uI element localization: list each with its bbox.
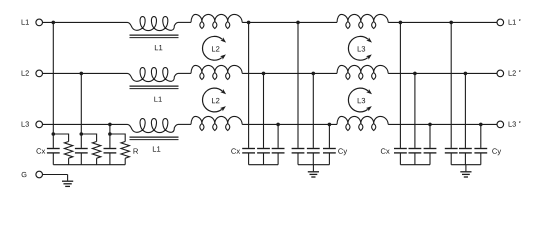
terminal L3' (output)	[497, 121, 520, 128]
wire L1 between choke L1 and choke L2	[178, 21, 191, 23]
inductor L1 winding b (row 2)	[128, 68, 179, 82]
node Cx2/R2 split junction	[80, 132, 84, 136]
capacitor right Cx2	[409, 149, 422, 153]
wire L2 down to mid Cx cap 2	[263, 73, 265, 147]
resistor R3	[121, 142, 129, 159]
wire right Cy cap 3 to rail	[480, 154, 482, 165]
node Cx1/R1 split junction	[52, 132, 56, 136]
inductor L2 winding b (row 2)	[191, 65, 242, 79]
wire L3 down to Cx3 branch	[109, 124, 111, 134]
inductor L1 winding a (row 1)	[128, 17, 179, 31]
core of L1 winding b	[130, 86, 179, 89]
inductor L1 winding c (row 3)	[128, 118, 179, 132]
capacitor right Cy1	[445, 149, 458, 153]
label R (bleeder resistor)	[134, 148, 139, 153]
wire right Cy cap 2 to rail	[464, 154, 466, 165]
wire mid Cx cap 3 to rail	[277, 154, 279, 165]
wire right Cx cap 2 to rail	[414, 154, 416, 165]
terminal L2 (input)	[22, 70, 43, 77]
wire L3 input to choke L1	[43, 123, 128, 125]
terminal G (ground input)	[22, 171, 43, 178]
inductor L2 winding a (row 1)	[191, 14, 242, 28]
wire mid Cx star rail	[249, 164, 279, 166]
wire L1 down to mid Cx cap 1	[248, 22, 250, 147]
wire L1 choke L3 to output	[388, 21, 497, 23]
resistor R1	[64, 142, 72, 159]
node L1 junction (right Cx cap 1)	[399, 21, 403, 25]
terminal L1 (input)	[22, 19, 43, 26]
capacitor mid Cy2	[307, 149, 320, 153]
circular arrow L3 (rows 2-3)	[348, 88, 372, 112]
capacitor right Cy2	[459, 149, 472, 153]
wire mid Cx cap 2 to rail	[263, 154, 265, 165]
node L2 junction (right Cx cap 2)	[413, 72, 417, 76]
wire right Cy star rail	[451, 164, 481, 166]
wire right Cx cap 3 to rail	[429, 154, 431, 165]
wire L3 down to right Cy cap 3	[480, 124, 482, 147]
wire resistor R1 to rail	[68, 158, 70, 165]
capacitor right Cy3	[474, 149, 487, 153]
capacitor mid Cx3	[272, 149, 285, 153]
ground (right Cy bank)	[460, 165, 471, 177]
wire L3 down to right Cx cap 3	[429, 124, 431, 147]
wire input bank star rail	[53, 164, 125, 166]
wire L2 down to mid Cy cap 2	[312, 73, 314, 147]
label L2 (rows 2-3)	[212, 98, 219, 103]
label L1 (row 1)	[155, 45, 162, 50]
wire L2 down to right Cy cap 2	[464, 73, 466, 147]
label Cy (output bank)	[492, 148, 501, 155]
wire L2 choke L3 to output	[388, 72, 497, 74]
node L3 junction (right Cx cap 3)	[428, 123, 432, 127]
capacitor right Cx1	[394, 149, 407, 153]
wire L1 down to right Cx cap 1	[399, 22, 401, 147]
wire stub to resistor R1	[53, 134, 68, 142]
wire right Cx cap 1 to rail	[399, 154, 401, 165]
wire G to earth	[43, 174, 68, 176]
capacitor mid Cx1	[242, 149, 255, 153]
capacitor mid Cy1	[292, 149, 305, 153]
node L3 junction (right Cy cap 3)	[479, 123, 483, 127]
node L2 junction (mid Cy cap 2)	[312, 72, 316, 76]
wire L3 down to mid Cy cap 3	[328, 124, 330, 147]
wire resistor R2 to rail	[96, 158, 98, 165]
terminal L3 (input)	[22, 121, 43, 128]
wire L2 between choke L1 and choke L2	[178, 72, 191, 74]
node L1 junction (right Cy cap 1)	[449, 21, 453, 25]
label L1 (row 3)	[153, 146, 160, 151]
circular arrow L3 (rows 1-2)	[348, 36, 372, 60]
node L2 junction (mid Cx cap 2)	[262, 72, 266, 76]
capacitor Cx2 (input bank)	[75, 134, 88, 165]
wire L3 choke L3 to output	[388, 123, 497, 125]
node L2 junction (right Cy cap 2)	[464, 72, 468, 76]
wire right Cx star rail	[400, 164, 430, 166]
circular arrow L2 (rows 1-2)	[203, 36, 227, 60]
wire resistor R3 to rail	[124, 158, 126, 165]
capacitor right Cx3	[424, 149, 437, 153]
node Cx3/R3 split junction	[108, 132, 112, 136]
resistor R2	[92, 142, 100, 159]
core of L1 winding a	[130, 35, 179, 38]
wire mid Cy cap 2 to rail	[312, 154, 314, 165]
ground (mid Cy bank)	[308, 165, 319, 177]
label L2 (rows 1-2)	[212, 46, 219, 51]
capacitor Cx3 (input bank)	[104, 134, 117, 165]
circular arrow L2 (rows 2-3)	[203, 88, 227, 112]
core of L1 winding c	[130, 137, 179, 140]
inductor L3 winding b (row 2)	[337, 65, 388, 79]
terminal L2' (output)	[497, 70, 520, 77]
label L1 (row 2)	[154, 97, 161, 102]
inductor L2 winding c (row 3)	[191, 116, 242, 130]
terminal L1' (output)	[497, 19, 520, 26]
node L1 tap junction	[52, 21, 56, 25]
wire mid Cx cap 1 to rail	[248, 154, 250, 165]
wire L3 between choke L1 and choke L2	[178, 123, 191, 125]
wire L1 input to choke L1	[43, 21, 128, 23]
capacitor Cx1 (input bank)	[47, 134, 60, 165]
node L3 junction (mid Cx cap 3)	[276, 123, 280, 127]
label L3 (rows 1-2)	[358, 46, 365, 51]
label L3 (rows 2-3)	[358, 98, 365, 103]
wire stub to resistor R3	[110, 134, 125, 142]
label Cx (output bank)	[381, 148, 390, 153]
wire mid Cy star rail	[298, 164, 329, 166]
wire right Cy cap 1 to rail	[450, 154, 452, 165]
label Cy (middle bank)	[338, 148, 347, 155]
ground (G terminal)	[62, 175, 73, 187]
label Cx (middle bank)	[231, 148, 240, 153]
wire stub to resistor R2	[81, 134, 96, 142]
wire L1 between choke L2 and choke L3	[242, 21, 337, 23]
wire L1 down to mid Cy cap 1	[297, 22, 299, 147]
wire L3 down to mid Cx cap 3	[277, 124, 279, 147]
wire L3 between choke L2 and choke L3	[242, 123, 337, 125]
capacitor mid Cy3	[323, 149, 336, 153]
inductor L3 winding a (row 1)	[337, 14, 388, 28]
node L3 junction (mid Cy cap 3)	[328, 123, 332, 127]
wire L1 down to Cx1 branch	[52, 22, 54, 134]
node L1 junction (mid Cx cap 1)	[247, 21, 251, 25]
wire L2 down to right Cx cap 2	[414, 73, 416, 147]
label Cx (input bank)	[36, 148, 45, 153]
node L3 tap junction	[108, 123, 112, 127]
wire L2 between choke L2 and choke L3	[242, 72, 337, 74]
inductor L3 winding c (row 3)	[337, 116, 388, 130]
wire L1 down to right Cy cap 1	[450, 22, 452, 147]
node L1 junction (mid Cy cap 1)	[296, 21, 300, 25]
wire mid Cy cap 3 to rail	[328, 154, 330, 165]
wire mid Cy cap 1 to rail	[297, 154, 299, 165]
wire L2 input to choke L1	[43, 72, 128, 74]
node L2 tap junction	[80, 72, 84, 76]
capacitor mid Cx2	[257, 149, 270, 153]
wire L2 down to Cx2 branch	[80, 73, 82, 134]
